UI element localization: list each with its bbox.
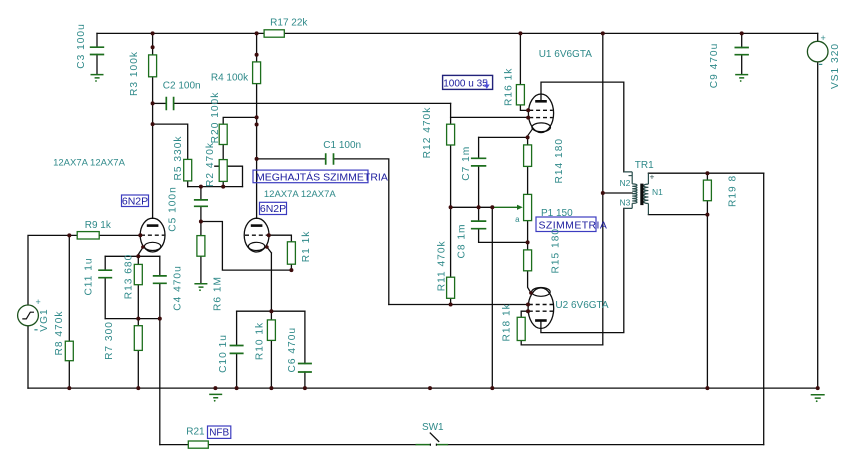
junction ground rail VG1 R8 [67, 386, 71, 390]
svg-text:+: + [36, 297, 41, 307]
wire C1 right elbow down [334, 159, 389, 305]
wire speaker return to ground rail [706, 215, 708, 389]
transformer TR1 [624, 172, 649, 215]
wire U2 control grid run [389, 304, 528, 306]
ground under C9 [735, 75, 748, 82]
ground under C3 [91, 75, 104, 82]
wire NFB to R21 [160, 444, 189, 446]
resistor R9 1k [77, 232, 99, 239]
junction R5 branch [151, 122, 155, 126]
svg-text:R17 22k: R17 22k [270, 17, 308, 28]
svg-text:R1 1k: R1 1k [301, 231, 312, 263]
wire stub over R2 [215, 166, 243, 186]
junction C1 branch [255, 157, 259, 161]
capacitor C8 1m plates [471, 221, 486, 229]
wire C5 bottom lead [200, 206, 202, 221]
svg-text:C1 100n: C1 100n [323, 140, 361, 151]
junction ground rail R7 [136, 386, 140, 390]
ground under R6 [194, 284, 207, 291]
wire C7 to C8 link [478, 166, 480, 221]
wire C6 bottom lead [304, 372, 306, 388]
wire center tap branch [603, 192, 632, 194]
resistor R7 300 [134, 326, 142, 351]
junction V2 cathode rail [269, 309, 273, 313]
wire V2 cathode rail [237, 310, 305, 312]
wire C10 bottom lead [236, 353, 238, 388]
svg-text:R21: R21 [186, 427, 205, 438]
wire wiper node rail [451, 206, 493, 208]
junction ground rail wiper column [490, 386, 494, 390]
svg-text:R4 100k: R4 100k [211, 73, 249, 84]
svg-text:R5 330k: R5 330k [173, 136, 184, 181]
wire N1 top run to R19 [648, 172, 763, 174]
resistor R3 100k [149, 55, 157, 77]
annotation box 6N2P second [260, 202, 287, 214]
capacitor C9 470u plates [735, 48, 749, 55]
wire C4 bottom lead [159, 283, 161, 318]
svg-text:C5 100n: C5 100n [168, 186, 179, 232]
wire V1 cathode rail bottom [105, 318, 160, 320]
svg-text:C4 470u: C4 470u [173, 265, 184, 311]
svg-text:P1 150: P1 150 [541, 208, 573, 219]
svg-text:R16 1k: R16 1k [504, 68, 515, 106]
wire R10 bottom lead [270, 340, 272, 388]
svg-text:C8 1m: C8 1m [457, 223, 468, 258]
wire R5 bottom [187, 181, 189, 187]
ground on rail right [811, 395, 825, 402]
junction ground rail C6 [303, 386, 307, 390]
wire R4 top lead [256, 33, 258, 62]
annotation box NFB [208, 426, 231, 438]
junction R11 bottom grid wire [449, 303, 453, 307]
svg-text:C9 470u: C9 470u [709, 43, 720, 89]
resistor R21 NFB [188, 441, 208, 448]
junction U1 screen entry [526, 108, 530, 112]
svg-text:U2 6V6GTA: U2 6V6GTA [555, 300, 608, 311]
potentiometer P1 150 body [524, 194, 532, 220]
voltage source VS1 [807, 33, 828, 65]
svg-text:U1 6V6GTA: U1 6V6GTA [539, 49, 592, 60]
junction V2 plate column [255, 123, 259, 127]
wire U1 cathode to C7 [479, 136, 528, 138]
capacitor C7 1m plates [471, 158, 486, 166]
resistor R4 100k [253, 62, 261, 84]
wire N1 bottom run [648, 214, 707, 216]
annotation box 6N2P first [122, 195, 149, 207]
wire R19 top lead [706, 173, 708, 180]
capacitor C5 100n plates [194, 200, 208, 206]
wire R3 top lead [152, 33, 154, 55]
capacitor C11 1u plates [98, 270, 112, 278]
junction V1 cathode rail [136, 254, 140, 258]
wire VS1 bottom to ground rail [817, 62, 819, 388]
wire C5 to R1 elbow [201, 222, 292, 271]
capacitor C3 100u plates [90, 47, 104, 54]
triode V1 6N2P [140, 218, 165, 252]
resistor R2 470k [219, 160, 227, 182]
junction R13 bottom / R7 top [136, 317, 140, 321]
wire R21 to SW1 [208, 444, 415, 446]
svg-text:R19 8: R19 8 [728, 175, 739, 207]
junction R9/R8/VG1 node [67, 233, 71, 237]
resistor R11 470k [447, 277, 455, 298]
wire VS1 top lead [817, 33, 819, 41]
wire R16 to U1 screen grid [520, 105, 528, 111]
resistor R20 100k [219, 124, 227, 144]
annotation box MEGHAJTAS SZIMMETRIA [253, 170, 368, 183]
junction U2 screen entry [526, 309, 530, 313]
junction R4 pin [255, 53, 259, 57]
junction C9 top rail [740, 31, 744, 35]
wire U2 screen grid to R18 [521, 311, 528, 317]
junction ground rail left ground [213, 386, 217, 390]
resistor R8 470k [65, 341, 73, 361]
resistor R18 1k [517, 317, 525, 340]
wire SW1 to NFB drop [448, 444, 764, 446]
junction C5 bottom / R6 top [199, 220, 203, 224]
junction C5 top [199, 185, 203, 189]
junction V2 grid entry [267, 233, 271, 237]
TR1 winding N2 [632, 184, 637, 194]
resistor R5 330k [184, 159, 192, 181]
junction R12 bottom rail [449, 205, 453, 209]
wire C1 left branch [257, 158, 326, 160]
svg-text:12AX7A 12AX7A: 12AX7A 12AX7A [264, 189, 336, 200]
junction U1 cathode node [526, 135, 530, 139]
annotation box 1000u 35v [443, 75, 493, 89]
wire R8 column [68, 235, 70, 341]
wire C8 bottom elbow to R15 top [479, 229, 528, 243]
svg-text:N2: N2 [619, 178, 630, 188]
svg-text:C7 1m: C7 1m [461, 146, 472, 181]
wire R6 top lead [200, 222, 202, 236]
svg-text:R14 180: R14 180 [554, 138, 565, 184]
resistor R14 180 [524, 145, 532, 167]
svg-text:C11 1u: C11 1u [84, 257, 95, 295]
junction R2 bottom [221, 185, 225, 189]
svg-text:VS1 320: VS1 320 [830, 43, 841, 89]
resistor R10 1k [267, 320, 275, 341]
svg-text:R15 180: R15 180 [551, 228, 562, 274]
TR1 core [640, 184, 643, 206]
TR1 primary bottom step [624, 203, 632, 208]
wire R7 bottom lead [137, 350, 139, 388]
svg-text:C6 470u: C6 470u [287, 327, 298, 373]
wire VG1 bottom to ground rail [27, 326, 29, 388]
wire C3 bottom lead to ground [96, 55, 98, 74]
junction R16 top rail [518, 31, 522, 35]
resistor R17 22k [264, 30, 284, 37]
junction R20 wire [255, 115, 259, 119]
wire wiper node down to ground rail [491, 207, 493, 388]
wire R7 top lead [137, 319, 139, 326]
junction wiper ground column [490, 205, 494, 209]
svg-text:12AX7A 12AX7A: 12AX7A 12AX7A [53, 158, 125, 169]
wire C9 top lead [741, 33, 743, 47]
ground on rail left [209, 394, 222, 401]
svg-text:R13 680: R13 680 [123, 254, 134, 300]
svg-text:a: a [515, 215, 520, 224]
wire R14 to P1 [527, 166, 529, 194]
junction V2 cathode edge [265, 245, 269, 249]
wire R19 bottom lead [706, 201, 708, 215]
wire R13 bottom lead [137, 285, 139, 319]
junction ground rail R10 [269, 386, 273, 390]
wire R4 bottom to V2 plate [256, 84, 258, 219]
wire R11 bottom [450, 298, 452, 304]
junction C2 branch [151, 101, 155, 105]
svg-text:R20 100k: R20 100k [210, 92, 221, 144]
resistor R15 180 [524, 250, 532, 271]
wire P1 bottom [527, 221, 529, 250]
wire R15 bottom to U2 cathode [528, 271, 531, 293]
wire C11 bottom lead [104, 278, 106, 319]
svg-text:6N2P: 6N2P [122, 195, 148, 207]
wire C2 right run to R12 column [174, 102, 451, 104]
TR1 secondary bottom step [647, 204, 649, 215]
capacitor C2 100n plates [166, 97, 173, 111]
wire C11 top lead [104, 256, 106, 270]
svg-text:1000 u 35: 1000 u 35 [443, 78, 488, 89]
TR1 winding N1 [644, 184, 649, 203]
wire C3 top lead [96, 33, 98, 47]
wire V2 cathode column [267, 247, 272, 311]
svg-text:C2 100n: C2 100n [163, 81, 201, 92]
junction U2 control entry [526, 303, 530, 307]
wire C7 top lead [478, 137, 480, 158]
TR1 primary top step [624, 172, 632, 184]
svg-text:NFB: NFB [209, 428, 229, 439]
svg-text:N3: N3 [619, 198, 630, 208]
svg-text:MEGHAJTÁS SZIMMETRIA: MEGHAJTÁS SZIMMETRIA [256, 170, 388, 183]
svg-text:R2 470k: R2 470k [205, 142, 216, 187]
potentiometer P1 wiper arrow [493, 205, 523, 210]
junction V1 grid entry [138, 233, 142, 237]
wire R1 bottom lead [290, 264, 292, 270]
junction R4 top rail [255, 31, 259, 35]
junction U2 cathode edge [529, 291, 533, 295]
wire C6 top lead [304, 311, 306, 363]
wire NFB drop from cathode node [159, 319, 161, 445]
svg-text:R10 1k: R10 1k [254, 322, 265, 360]
svg-text:R18 1k: R18 1k [502, 303, 513, 341]
resistor R1 1k [287, 242, 295, 264]
wire R20-R2 link [222, 145, 224, 160]
svg-text:R12 470k: R12 470k [422, 107, 433, 159]
wire NFB drop from N1 [763, 173, 765, 444]
switch SW1 [416, 433, 449, 446]
wire R18 bottom to B+ column [521, 341, 603, 345]
capacitor C4 470u plates [153, 276, 167, 283]
wire R16 top lead [519, 33, 521, 84]
pentode U1 6V6GTA [528, 94, 554, 137]
svg-text:SZIMMETRIA: SZIMMETRIA [539, 219, 608, 231]
junction R3 top rail [151, 31, 155, 35]
wire R12 column top [450, 103, 452, 124]
wire R2 bottom [222, 181, 224, 186]
svg-text:VG1: VG1 [39, 308, 50, 331]
junction R1 bottom [289, 268, 293, 272]
junction R19 bottom [705, 213, 709, 217]
TR1 winding N3 [632, 194, 637, 204]
capacitor C6 470u plates [298, 364, 312, 373]
wire R12 to R11 column [450, 145, 452, 277]
junction center tap column top rail [601, 31, 605, 35]
svg-text:+: + [650, 172, 655, 182]
resistor R12 470k [447, 124, 455, 145]
wire U1 control grid from driver [451, 116, 529, 118]
wire V1 cathode lead [138, 247, 143, 256]
svg-text:R7 300: R7 300 [104, 321, 115, 360]
wire C9 bottom lead to ground [741, 55, 743, 74]
wire R13 top lead [137, 256, 139, 264]
junction C8/R15 node [526, 240, 530, 244]
junction R3 pin [151, 45, 155, 49]
wire VG1 top to R9 [28, 235, 77, 305]
junction ground rail C10 [235, 386, 239, 390]
junction ground rail stray [428, 386, 432, 390]
svg-text:R8 470k: R8 470k [54, 311, 65, 356]
junction V1 cathode edge [141, 245, 145, 249]
wire ground rail [28, 387, 818, 389]
svg-text:SW1: SW1 [422, 422, 444, 433]
wire node rail under R5/R2 [188, 186, 243, 188]
triode V2 6N2P [244, 218, 269, 252]
pentode U2 6V6GTA [528, 288, 554, 329]
wire R10 top lead [270, 311, 272, 320]
capacitor C1 100n plates [326, 153, 334, 165]
capacitor C10 1u plates [230, 346, 244, 354]
wire V2 grid to R1 [269, 235, 292, 242]
wire U1 plate elbow to TR1 [541, 82, 624, 172]
junction ground rail speaker [705, 386, 709, 390]
wire C2 left branch [153, 102, 167, 104]
svg-text:R9 1k: R9 1k [85, 220, 112, 231]
wire R20 top branch [223, 117, 256, 124]
svg-text:N1: N1 [652, 187, 663, 197]
resistor R13 680 [134, 264, 142, 284]
wire R8 bottom [68, 361, 70, 388]
svg-text:C10 1u: C10 1u [218, 334, 229, 373]
wire R9 right to V1 grid [99, 234, 140, 236]
svg-text:R11 470k: R11 470k [436, 240, 447, 291]
wire R14 top lead [527, 137, 529, 145]
svg-text:R3 100k: R3 100k [129, 51, 140, 96]
resistor R6 1M [197, 236, 205, 257]
junction R19 top [705, 171, 709, 175]
TR1 secondary top step [647, 173, 649, 184]
resistor R19 8 [703, 180, 711, 201]
wire C4 top lead [159, 256, 161, 276]
label arrow on 1000u 35v box [484, 81, 490, 89]
wire R5 branch elbow [153, 124, 188, 159]
TR1 polarity minus mark N2 [629, 175, 633, 177]
svg-text:+: + [821, 33, 826, 43]
wire V1 cathode rail top [105, 255, 160, 257]
svg-text:R6 1M: R6 1M [212, 276, 223, 311]
junction ground rail VS1 [816, 386, 820, 390]
svg-text:6N2P: 6N2P [260, 203, 286, 215]
wire R6 bottom to ground [200, 256, 202, 283]
wire R3 bottom to V1 plate [152, 77, 154, 219]
wire U2 plate elbow to TR1 [541, 208, 624, 332]
wire B+ top rail [97, 32, 818, 34]
resistor R16 1k [516, 85, 524, 105]
wire B+ center tap column [602, 33, 604, 345]
junction C4 bottom / NFB [158, 317, 162, 321]
voltage source VG1 [18, 297, 41, 330]
annotation box SZIMMETRIA [536, 217, 596, 232]
svg-text:TR1: TR1 [635, 160, 654, 171]
wire C10 top lead [236, 311, 238, 345]
svg-text:C3 100u: C3 100u [76, 23, 87, 69]
junction C7/C8 node [477, 205, 481, 209]
junction U1 control entry [526, 116, 530, 120]
junction TR1 center tap [601, 191, 605, 195]
wire C5 top lead [200, 187, 202, 200]
